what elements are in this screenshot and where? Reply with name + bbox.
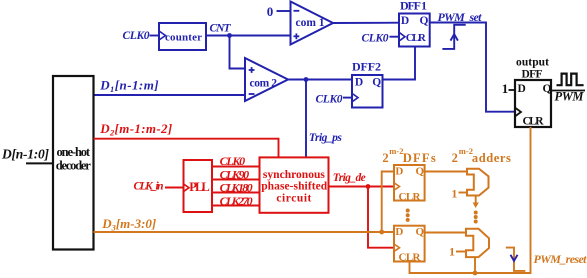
node Trig_ps junction <box>304 77 309 82</box>
svg-text:one-hot: one-hot <box>57 145 91 159</box>
flip-flop DFF1 <box>399 14 430 47</box>
op-amp com2 comparator <box>245 58 288 101</box>
node CNT junction <box>227 33 232 38</box>
wire D1 decoder to com2 - input <box>94 94 246 96</box>
svg-text:CLK0: CLK0 <box>362 33 389 45</box>
wire bottom DFF Q to bottom adder <box>425 232 466 234</box>
svg-text:output: output <box>516 57 549 69</box>
svg-text:PWM: PWM <box>555 90 585 104</box>
wire top DFF Q to top adder <box>425 171 467 173</box>
svg-text:PLL: PLL <box>189 180 210 194</box>
wire top adder output with arrow <box>475 196 477 204</box>
wire 0 to com1 - input <box>277 10 291 12</box>
wire CLK270 PLL output <box>212 205 260 207</box>
svg-text:decoder: decoder <box>56 158 91 172</box>
wire D input to decoder <box>26 162 53 164</box>
wire CLK0 to counter <box>150 35 160 37</box>
wire PWM_reset rail <box>410 127 531 273</box>
svg-text:D1[n-1:m]: D1[n-1:m] <box>99 77 159 94</box>
rising edge symbol <box>442 25 465 49</box>
wire Trig_de to DFF clocks <box>329 187 395 248</box>
wire Trig_ps down to sync circuit <box>305 80 307 158</box>
svg-text:D3[m-3:0]: D3[m-3:0] <box>101 216 156 233</box>
svg-text:D: D <box>395 166 403 178</box>
svg-text:CLK0: CLK0 <box>123 30 150 42</box>
wire DFF2 Q to DFF1 CLR <box>383 47 416 80</box>
svg-text:DFF: DFF <box>522 68 543 80</box>
svg-text:1: 1 <box>451 186 457 200</box>
wire CLK_in to PLL <box>165 184 189 191</box>
svg-text:DFFs: DFFs <box>403 151 436 165</box>
op-amp com1 comparator <box>291 2 334 45</box>
falling edge symbol <box>506 248 526 271</box>
svg-text:Q: Q <box>372 77 381 89</box>
wire bottom adder output to rail <box>474 257 476 273</box>
one-hot decoder block <box>53 76 94 250</box>
wire counter output to com1 + input <box>206 35 291 37</box>
synchronous phase-shifted circuit block <box>260 157 329 212</box>
svg-text:CLK0: CLK0 <box>316 93 343 105</box>
wire D3 decoder to DFF D inputs <box>94 172 395 233</box>
svg-text:phase-shifted: phase-shifted <box>261 181 328 193</box>
wire com1 output to DFF1 D <box>333 22 399 24</box>
counter U-counter <box>159 23 206 50</box>
flip-flop DFF bottom (orange) <box>394 226 425 262</box>
svg-text:D: D <box>518 83 526 95</box>
flip-flop DFF2 <box>352 75 383 108</box>
node rail junction <box>473 271 478 276</box>
ellipsis dots adder chain <box>474 211 478 224</box>
adder top <box>467 169 489 196</box>
wire 1 to bottom adder <box>456 251 466 253</box>
svg-text:circuit: circuit <box>276 193 311 205</box>
flip-flop DFF top (orange) <box>394 165 425 201</box>
ellipsis dots DFF chain <box>406 209 410 222</box>
svg-text:D: D <box>401 15 409 27</box>
svg-text:com 1: com 1 <box>296 17 325 29</box>
svg-text:CNT: CNT <box>210 22 232 34</box>
svg-text:CLR: CLR <box>523 115 545 127</box>
wire 1 to output DFF D <box>509 89 516 91</box>
wire com2 output to DFF2 D <box>288 79 352 81</box>
svg-text:synchronous: synchronous <box>263 169 326 181</box>
wire CLK0 dash to DFF2 <box>343 97 352 99</box>
svg-text:1: 1 <box>449 244 455 258</box>
svg-text:CLK0: CLK0 <box>220 154 246 168</box>
svg-text:adders: adders <box>472 151 511 165</box>
node D3 junction <box>379 230 384 235</box>
node Trig_de junction <box>366 184 371 189</box>
falling edge arrowhead (blue) <box>511 255 518 261</box>
svg-text:m-2: m-2 <box>459 146 473 156</box>
svg-text:2: 2 <box>452 151 458 165</box>
wire CLK0 dash to DFF1 <box>390 36 400 38</box>
pulse waveform symbol <box>557 74 584 86</box>
svg-text:Q: Q <box>416 226 425 238</box>
PLL block <box>184 160 213 212</box>
wire CLK90 PLL output <box>212 179 260 181</box>
svg-text:Q: Q <box>416 166 425 178</box>
svg-text:D: D <box>395 226 403 238</box>
wire CNT junction to com2 + input <box>230 36 246 69</box>
svg-text:Trig_ps: Trig_ps <box>309 132 343 144</box>
svg-text:2: 2 <box>382 151 388 165</box>
svg-text:CLK180: CLK180 <box>220 181 253 195</box>
wire DFF1 Q to output DFF clock <box>430 23 515 112</box>
svg-text:PWM_reset: PWM_reset <box>534 252 587 266</box>
svg-text:CLR: CLR <box>399 191 422 203</box>
svg-text:CLK90: CLK90 <box>220 168 250 182</box>
svg-text:CLK270: CLK270 <box>220 194 253 208</box>
flip-flop output DFF <box>515 80 551 127</box>
svg-text:1: 1 <box>502 81 509 96</box>
svg-text:D: D <box>355 77 363 89</box>
adder bottom <box>466 229 489 257</box>
svg-text:com 2: com 2 <box>250 77 278 89</box>
svg-text:Q: Q <box>543 83 552 95</box>
svg-text:CLR: CLR <box>406 32 427 44</box>
wire output DFF Q out <box>551 90 585 92</box>
svg-text:0: 0 <box>267 4 274 19</box>
svg-text:m-2: m-2 <box>389 146 403 156</box>
svg-text:CLK_in: CLK_in <box>134 181 164 193</box>
wire CLK0 PLL output <box>212 166 260 168</box>
wire CLK180 PLL output <box>212 192 260 194</box>
wire 1 to top adder <box>459 192 468 194</box>
svg-text:Q: Q <box>420 15 429 27</box>
svg-text:DFF 1: DFF 1 <box>400 0 427 12</box>
svg-text:Trig_de: Trig_de <box>333 172 366 184</box>
svg-text:D[n-1:0]: D[n-1:0] <box>1 147 50 162</box>
wire D2 decoder to sync circuit <box>94 139 279 158</box>
svg-text:counter: counter <box>165 32 202 44</box>
svg-text:DFF2: DFF2 <box>352 60 381 74</box>
